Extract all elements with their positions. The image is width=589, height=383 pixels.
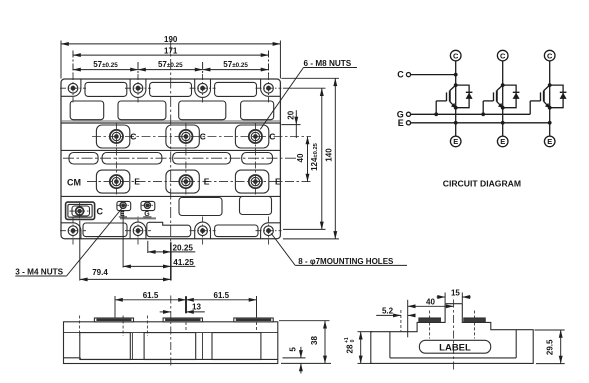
surface line below E row: [61, 195, 280, 197]
dim 190 extension lines: [61, 41, 280, 79]
terminal G aux: [397, 109, 411, 119]
bottom edge rect 3: [215, 225, 258, 237]
E terminal pad 1: [96, 170, 129, 193]
svg-text:C: C: [397, 70, 404, 80]
svg-text:E: E: [453, 137, 458, 146]
node Q2 emitter: [501, 106, 505, 110]
dim 13 line: [160, 311, 205, 313]
svg-text:C: C: [453, 51, 459, 60]
dim 79.4 line: [80, 278, 171, 280]
dim 5 line: [300, 347, 302, 374]
module horizontal centerline: [63, 157, 296, 159]
svg-text:E: E: [398, 118, 404, 128]
svg-text:171: 171: [164, 46, 178, 55]
svg-text:C: C: [269, 132, 275, 142]
wire G bus: [411, 113, 531, 115]
svg-text:E: E: [500, 137, 505, 146]
surface line below C row: [61, 149, 280, 151]
svg-text:CIRCUIT DIAGRAM: CIRCUIT DIAGRAM: [443, 178, 521, 188]
dim 20 line: [295, 110, 297, 138]
end view body outline: [371, 304, 533, 364]
end view hidden lines under bosses: [401, 310, 475, 339]
front view inner rect 2: [144, 333, 196, 360]
svg-text:20: 20: [287, 110, 296, 119]
dim 171 line: [73, 54, 269, 56]
LABEL box: [419, 340, 490, 353]
right extension lines: [281, 78, 339, 239]
dim 190 line: [61, 43, 280, 45]
C terminal pad 2: [166, 125, 199, 148]
C terminal 1 circle: [110, 130, 123, 143]
svg-text:140: 140: [325, 148, 334, 162]
terminal C2 circle: [497, 50, 508, 61]
top edge slot rect 2: [150, 82, 192, 96]
end view nut boss right: [464, 318, 485, 322]
row2 vent rect 1: [70, 101, 104, 120]
leader 6-M8 NUTS: [260, 68, 357, 130]
row6 rect A: [179, 198, 222, 216]
front view terminal boss 3: [234, 318, 273, 322]
dim 29.5 line: [560, 330, 562, 364]
wire column 1: [455, 61, 457, 136]
row6 rect B: [240, 197, 272, 215]
dim 40 extension line: [407, 300, 409, 338]
end view nut boss left: [419, 318, 441, 322]
C row centerline: [92, 136, 311, 138]
svg-text:5.2: 5.2: [382, 307, 394, 316]
terminal C aux: [397, 70, 410, 80]
end view right cap line: [515, 330, 517, 358]
node Q3 emitter: [548, 106, 552, 110]
dim 57 line c: [203, 69, 269, 71]
ear boundary top-left corner: [61, 79, 81, 96]
diode D3: [550, 85, 567, 108]
svg-text:C: C: [97, 206, 104, 216]
svg-text:57±0.25: 57±0.25: [223, 60, 248, 69]
front view hidden terminal lines: [80, 316, 257, 337]
diode D2: [503, 85, 520, 108]
end view left cap line: [389, 332, 391, 358]
mounting holes top row: [68, 83, 273, 93]
svg-text:C: C: [130, 132, 136, 142]
C terminal pad 3: [235, 125, 268, 148]
node column2 on E bus: [501, 121, 505, 125]
svg-text:79.4: 79.4: [92, 268, 108, 277]
svg-text:E: E: [547, 137, 552, 146]
dim 40 line: [307, 137, 309, 182]
row2 vent rect 3: [179, 101, 226, 120]
svg-text:C: C: [547, 51, 553, 60]
E terminal 2 circle: [179, 175, 192, 188]
front view inner rect 1: [80, 333, 131, 360]
dim 28 line: [360, 332, 362, 364]
E row centerline: [87, 181, 311, 183]
top edge slot rect 3: [215, 82, 257, 96]
dim 29.5 extension lines: [535, 330, 565, 364]
end view centerline: [453, 300, 455, 371]
svg-text:190: 190: [164, 35, 178, 44]
svg-text:124±0.25: 124±0.25: [310, 142, 319, 171]
dim 61.5 line b: [186, 299, 257, 301]
aux terminal bar: [119, 217, 156, 219]
wire E bus: [411, 122, 550, 124]
svg-text:CM: CM: [67, 178, 81, 188]
dim 57 line b: [138, 69, 203, 71]
IGBT Q1: [436, 85, 456, 114]
dim 57 line a: [73, 69, 138, 71]
row2 vent rect 2: [118, 101, 166, 120]
terminal E aux: [398, 118, 411, 128]
front view extra verticals: [132, 333, 202, 360]
svg-text:LABEL: LABEL: [439, 342, 471, 353]
slot row rect 4: [242, 153, 273, 165]
wire C bus: [411, 74, 456, 76]
svg-text:C: C: [200, 132, 206, 142]
module vertical centerline: [170, 41, 172, 243]
C terminal pad 1: [96, 125, 129, 148]
front view centerline: [170, 296, 172, 367]
end view baseplate line: [390, 357, 516, 359]
svg-text:57±0.25: 57±0.25: [158, 60, 183, 69]
dim 41.25 line: [123, 265, 195, 267]
dim 40 line: [408, 305, 454, 307]
svg-text:E: E: [204, 177, 210, 187]
front view inner rect 3: [212, 333, 261, 360]
leader 8-phi7 mounting holes: [271, 233, 407, 265]
ear boundary bottom-left corner: [61, 223, 81, 239]
bottom edge rect 1: [83, 223, 127, 237]
svg-text:15: 15: [451, 288, 460, 297]
ear boundary bottom hole 2: [130, 222, 146, 239]
ear boundary top hole 3: [195, 79, 211, 97]
dim 15 extension lines: [445, 293, 462, 304]
terminal column centerlines: [116, 123, 255, 197]
leader 3-M4 NUTS: [15, 209, 122, 277]
front view inner shelf line: [64, 332, 278, 334]
aux collector block: [66, 202, 95, 219]
svg-text:E: E: [275, 177, 281, 187]
aux C crosshair: [70, 203, 91, 220]
node Q1 emitter: [454, 106, 458, 110]
aux emitter terminal: [117, 201, 131, 210]
node Q1 collector: [454, 83, 458, 87]
dim 20.25 line: [148, 251, 196, 253]
svg-text:61.5: 61.5: [143, 291, 159, 300]
C terminal 3 circle: [249, 130, 262, 143]
svg-text:8 - φ7MOUNTING HOLES: 8 - φ7MOUNTING HOLES: [298, 257, 394, 266]
mounting holes bottom row: [68, 226, 273, 236]
bottom extension lines: [80, 212, 148, 281]
svg-text:5: 5: [288, 347, 297, 352]
aux gate terminal: [141, 201, 155, 210]
E terminal pad 2: [166, 170, 199, 193]
node column3 on E bus: [548, 121, 552, 125]
terminal E1 circle: [450, 136, 461, 147]
ear boundary top-right corner: [261, 79, 281, 96]
dim 15 line: [437, 296, 471, 298]
svg-text:61.5: 61.5: [214, 291, 230, 300]
svg-text:G: G: [144, 211, 150, 218]
svg-text:0: 0: [350, 339, 356, 342]
front view baseplate line: [64, 358, 278, 360]
svg-text:38: 38: [310, 336, 319, 345]
diode D1: [456, 85, 473, 108]
circuit diagram caption: [443, 178, 521, 188]
front view terminal boss 2: [163, 318, 202, 322]
slot row rect 2: [102, 153, 162, 165]
terminal E2 circle: [497, 136, 508, 147]
slot row rect 1: [69, 153, 98, 165]
svg-text:41.25: 41.25: [173, 258, 194, 267]
wire column 2: [502, 61, 504, 136]
wire column 3: [549, 61, 551, 136]
node Q3 collector: [548, 83, 552, 87]
dim 38 extension lines: [279, 321, 331, 364]
svg-text:40: 40: [426, 298, 435, 307]
node column1 on E bus: [454, 121, 458, 125]
terminal E3 circle: [544, 136, 555, 147]
E terminal 1 circle: [110, 175, 123, 188]
terminal C3 circle: [544, 50, 555, 61]
hole centerline crosshairs: [60, 74, 282, 245]
dim text 28 with tolerance: [344, 337, 356, 353]
svg-text:6 - M8 NUTS: 6 - M8 NUTS: [304, 59, 352, 68]
dim 61.5 line a: [115, 299, 186, 301]
svg-text:20.25: 20.25: [173, 243, 194, 252]
surface step line above C row: [61, 121, 280, 123]
node Q2 gate on G bus: [481, 112, 485, 116]
node Q1 gate on G bus: [434, 112, 438, 116]
ear boundary bottom hole 3: [195, 222, 211, 239]
dim 5 extension line: [283, 357, 306, 359]
bottom reference centerline: [170, 242, 172, 280]
front view body outline: [64, 322, 278, 364]
C terminal 2 circle: [179, 130, 192, 143]
node C1 junction: [454, 73, 458, 77]
dim 28 extension lines: [358, 332, 373, 364]
E terminal 3 circle: [249, 175, 262, 188]
row2 vent rect 4: [241, 101, 274, 120]
top edge slot rect 1: [85, 82, 127, 96]
E terminal pad 3: [235, 170, 268, 193]
ear boundary bottom-right corner: [261, 223, 281, 239]
svg-text:29.5: 29.5: [545, 339, 554, 355]
bottom edge rect 2: [147, 222, 191, 236]
svg-text:E: E: [120, 211, 125, 218]
svg-text:C: C: [500, 51, 506, 60]
node Q2 collector: [501, 83, 505, 87]
slot row rect 3: [173, 153, 231, 165]
dim 57 extension centerlines: [73, 51, 269, 75]
module outline (top view): [61, 79, 280, 239]
dim 38 line: [324, 321, 326, 364]
IGBT Q2: [483, 85, 503, 114]
svg-text:28: 28: [346, 344, 355, 353]
terminal C1 circle: [450, 50, 461, 61]
dim 124 line: [321, 88, 323, 229]
IGBT Q3: [530, 85, 550, 114]
svg-text:40: 40: [296, 153, 305, 162]
dim 61.5 extension lines: [115, 296, 257, 317]
svg-text:13: 13: [192, 303, 201, 312]
dim 140 line: [334, 78, 336, 239]
svg-text:3 - M4 NUTS: 3 - M4 NUTS: [15, 268, 63, 277]
front view terminal boss 1: [94, 318, 133, 322]
svg-text:E: E: [134, 177, 140, 187]
ear boundary top hole 2: [130, 79, 146, 97]
svg-text:57±0.25: 57±0.25: [93, 60, 118, 69]
dim 5.2 line: [376, 314, 413, 316]
